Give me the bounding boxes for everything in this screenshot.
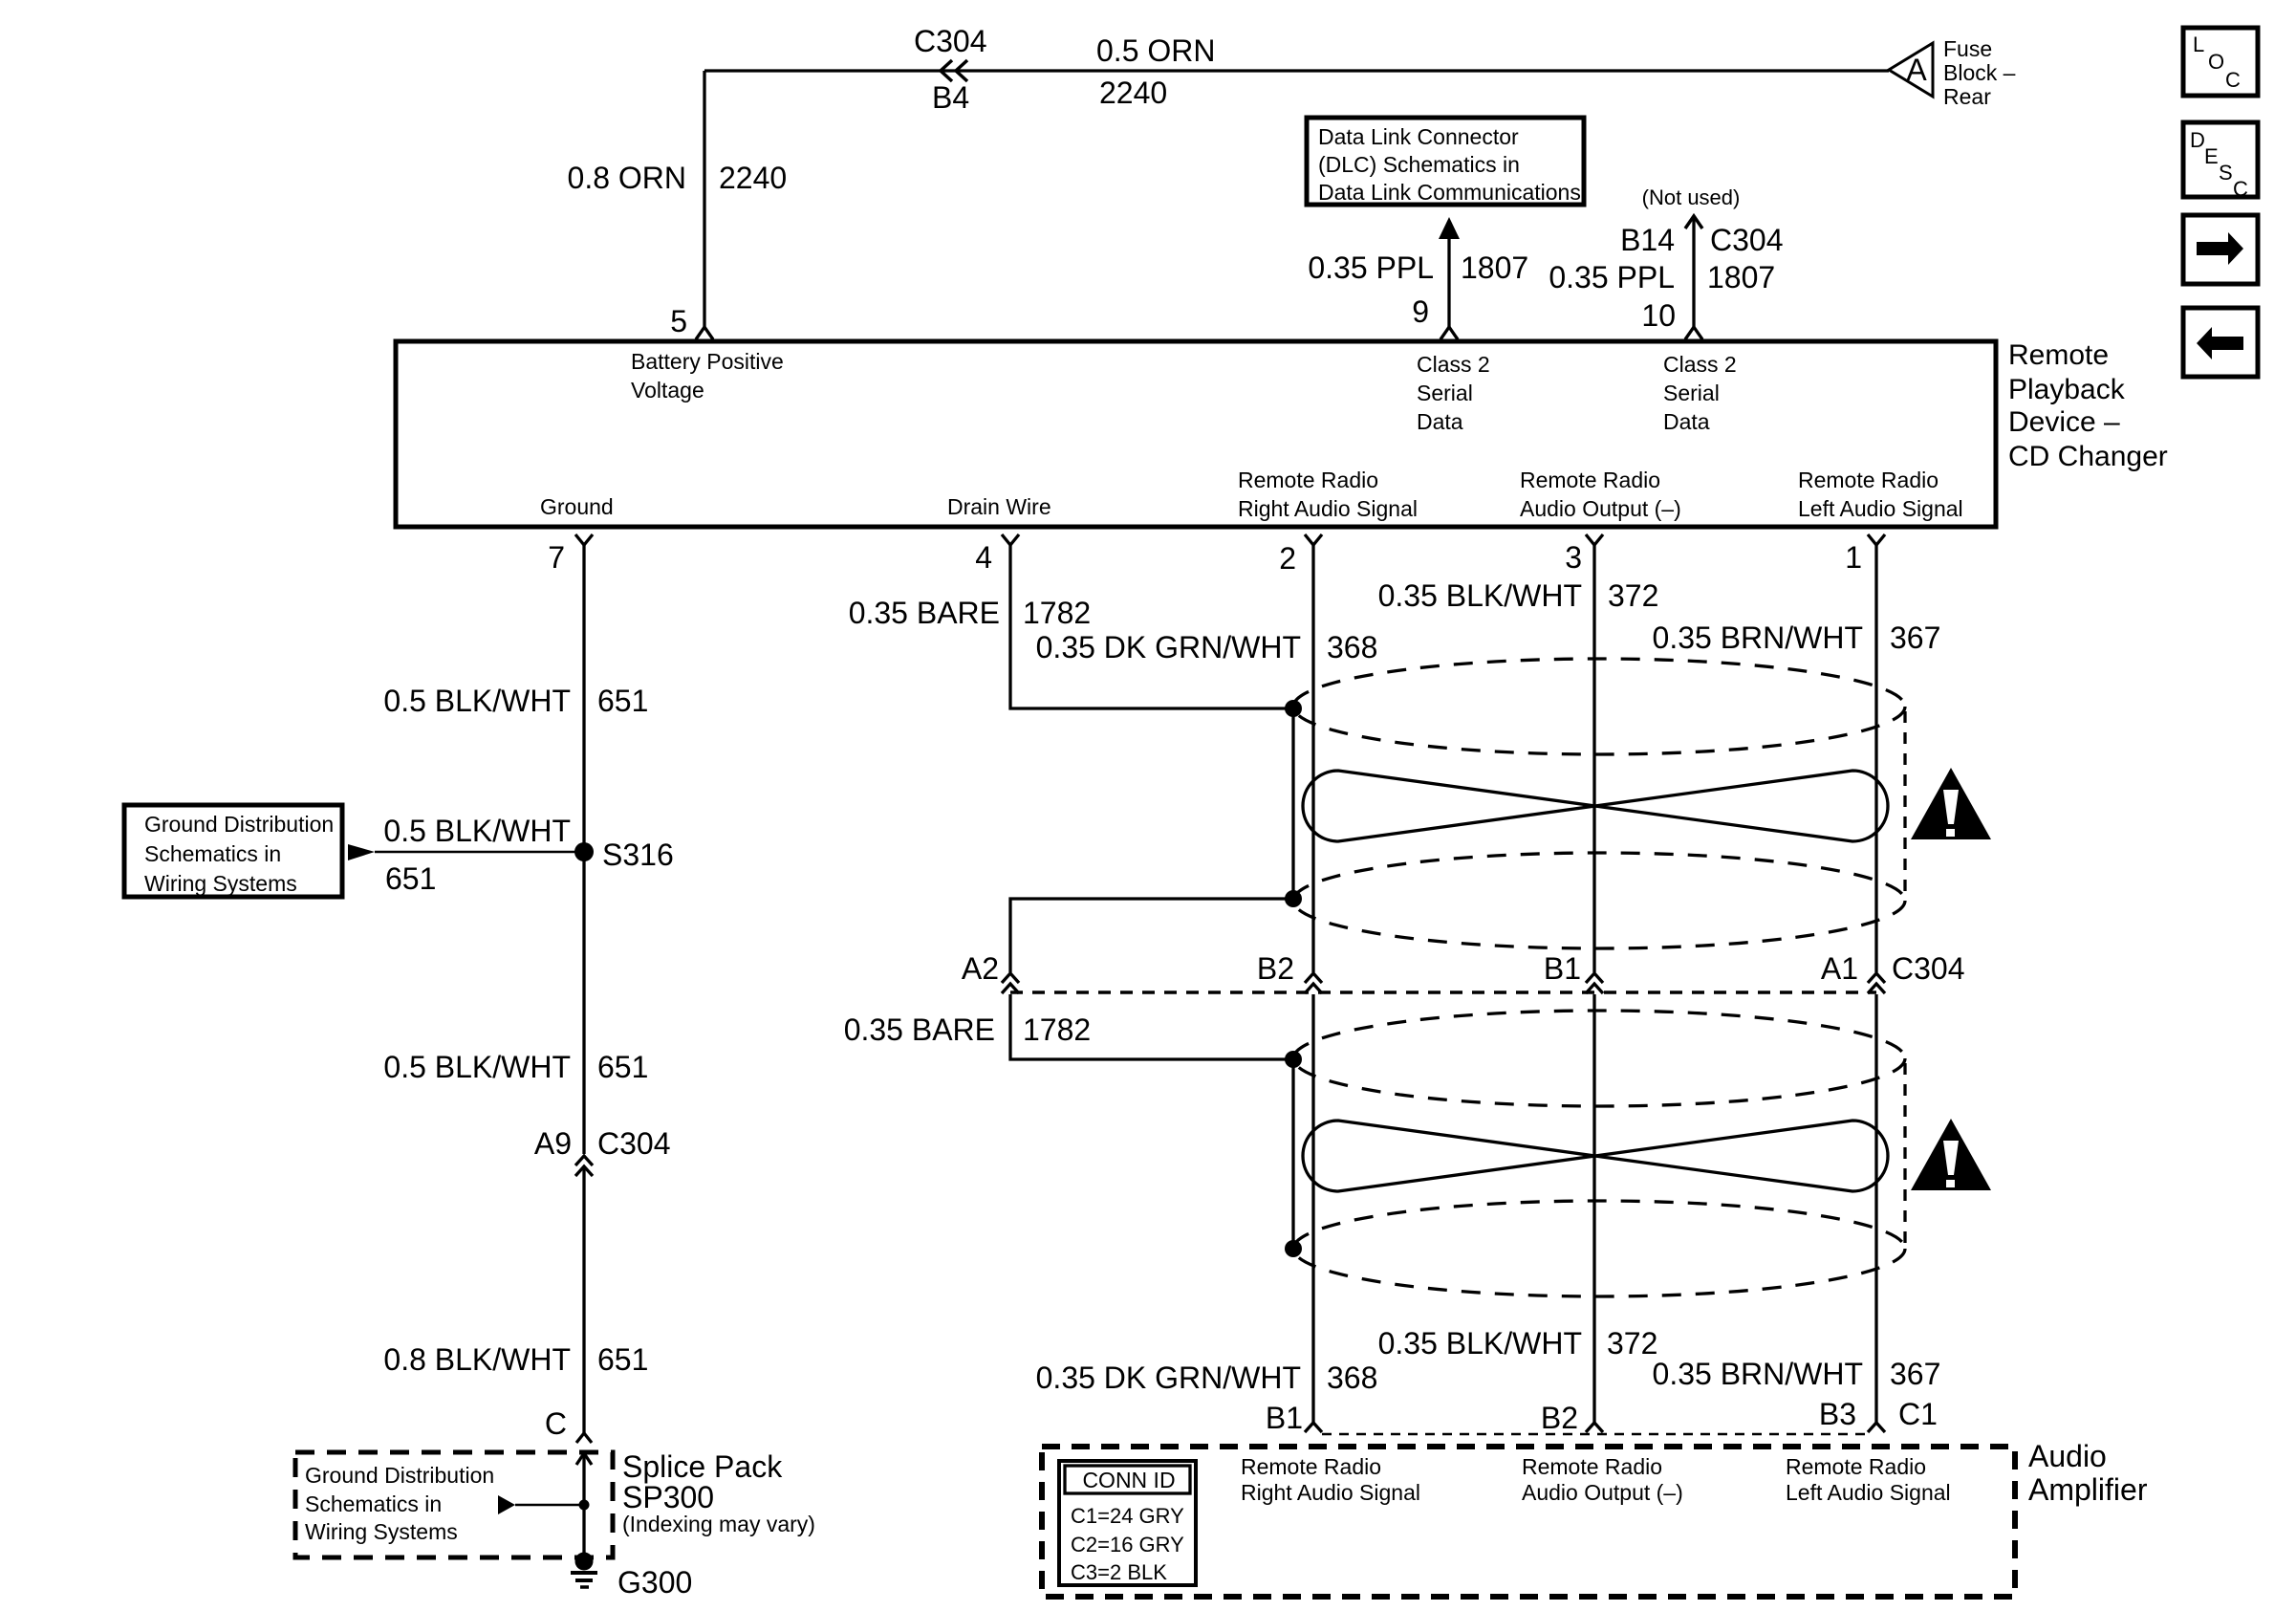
- connector C304 B4 chevrons on top wire: [941, 60, 967, 81]
- audio amplifier dashed box: [1042, 1447, 2015, 1597]
- svg-text:0.35 DK GRN/WHT: 0.35 DK GRN/WHT: [1036, 1361, 1301, 1395]
- svg-text:Battery Positive: Battery Positive: [631, 349, 784, 374]
- twisted pair shield upper: right side: [1903, 711, 1906, 896]
- wire vertical 0.8 ORN: [703, 71, 705, 327]
- amp pins dashed link: [1322, 1433, 1866, 1436]
- svg-text:Ground Distribution: Ground Distribution: [305, 1463, 494, 1488]
- wire pin 3 lower: [1592, 994, 1595, 1423]
- svg-text:0.35 BLK/WHT: 0.35 BLK/WHT: [1378, 1326, 1582, 1361]
- svg-text:B2: B2: [1257, 951, 1294, 986]
- svg-text:A2: A2: [962, 951, 999, 986]
- svg-text:2240: 2240: [719, 161, 787, 195]
- svg-text:0.35 PPL: 0.35 PPL: [1308, 250, 1434, 285]
- svg-text:S316: S316: [602, 838, 674, 872]
- svg-text:0.5 ORN: 0.5 ORN: [1096, 33, 1215, 68]
- svg-text:0.8 ORN: 0.8 ORN: [568, 161, 686, 195]
- connector row dashed line C304: [1010, 991, 1876, 994]
- svg-text:C1=24 GRY: C1=24 GRY: [1071, 1504, 1184, 1528]
- twisted pair shield lower: top ellipse: [1293, 1011, 1905, 1106]
- svg-text:Data: Data: [1417, 409, 1463, 434]
- svg-text:Audio: Audio: [2028, 1439, 2107, 1473]
- svg-text:CONN ID: CONN ID: [1082, 1468, 1175, 1492]
- svg-text:0.5 BLK/WHT: 0.5 BLK/WHT: [383, 1050, 571, 1084]
- wire pin 1 upper: [1874, 545, 1877, 972]
- shield dot lower top: [1285, 1051, 1302, 1068]
- svg-text:Data: Data: [1663, 409, 1710, 434]
- wire top horizontal 0.5 ORN: [704, 69, 1889, 72]
- svg-text:368: 368: [1327, 630, 1377, 664]
- svg-text:Block –: Block –: [1943, 60, 2016, 85]
- svg-text:Drain Wire: Drain Wire: [947, 494, 1051, 519]
- svg-text:O: O: [2208, 50, 2224, 74]
- svg-text:0.35 BRN/WHT: 0.35 BRN/WHT: [1653, 620, 1863, 655]
- shield link upper: [1291, 708, 1294, 899]
- warning triangle upper: [1911, 768, 1991, 839]
- ground wire lower segment: [582, 1166, 585, 1433]
- DLC reference box: [1307, 118, 1584, 205]
- svg-text:0.35 PPL: 0.35 PPL: [1549, 260, 1675, 294]
- svg-text:A1: A1: [1821, 951, 1858, 986]
- twisted pair shield lower: right side: [1903, 1063, 1906, 1244]
- svg-text:372: 372: [1607, 1326, 1657, 1361]
- svg-text:651: 651: [385, 861, 436, 896]
- svg-text:Data Link Connector: Data Link Connector: [1318, 124, 1519, 149]
- svg-text:D: D: [2190, 128, 2205, 152]
- svg-text:651: 651: [597, 1050, 648, 1084]
- svg-text:C: C: [545, 1406, 567, 1441]
- pin 5 connector caret: [696, 327, 713, 339]
- pin 4 fork: [1002, 534, 1019, 545]
- svg-text:2: 2: [1279, 541, 1296, 576]
- svg-text:Remote Radio: Remote Radio: [1241, 1454, 1381, 1479]
- svg-text:651: 651: [597, 684, 648, 718]
- svg-text:Splice Pack: Splice Pack: [622, 1449, 783, 1484]
- svg-text:B3: B3: [1819, 1397, 1856, 1431]
- svg-text:Playback: Playback: [2008, 374, 2126, 405]
- svg-text:C304: C304: [1892, 951, 1965, 986]
- svg-text:SP300: SP300: [622, 1480, 714, 1514]
- svg-text:B1: B1: [1266, 1401, 1303, 1435]
- svg-text:C304: C304: [1710, 223, 1784, 257]
- svg-text:Left Audio Signal: Left Audio Signal: [1798, 496, 1963, 521]
- svg-text:4: 4: [975, 540, 992, 575]
- pin 2 fork: [1305, 534, 1322, 545]
- svg-text:Wiring Systems: Wiring Systems: [144, 871, 297, 896]
- right arrow box: [2183, 215, 2258, 284]
- DESC box: [2183, 122, 2258, 201]
- svg-text:Remote Radio: Remote Radio: [1238, 468, 1378, 492]
- twisted pair shield upper: bottom ellipse: [1293, 853, 1905, 948]
- svg-text:0.35 BARE: 0.35 BARE: [849, 596, 1000, 630]
- svg-text:B2: B2: [1541, 1401, 1578, 1435]
- shield dot lower bottom: [1285, 1240, 1302, 1257]
- svg-text:5: 5: [670, 304, 687, 338]
- svg-text:Data Link Communications: Data Link Communications: [1318, 180, 1581, 205]
- svg-text:(Not used): (Not used): [1642, 185, 1741, 209]
- svg-text:(DLC) Schematics in: (DLC) Schematics in: [1318, 152, 1520, 177]
- svg-text:Amplifier: Amplifier: [2028, 1472, 2148, 1507]
- svg-text:E: E: [2204, 144, 2219, 168]
- pin 1 fork: [1868, 534, 1885, 545]
- svg-text:0.35 BRN/WHT: 0.35 BRN/WHT: [1653, 1357, 1863, 1391]
- CD changer box: [396, 341, 1996, 527]
- svg-text:G300: G300: [617, 1565, 692, 1600]
- pin 7 fork: [575, 534, 593, 545]
- svg-text:368: 368: [1327, 1361, 1377, 1395]
- svg-text:L: L: [2193, 33, 2204, 56]
- svg-text:Remote: Remote: [2008, 339, 2109, 371]
- svg-text:Serial: Serial: [1663, 381, 1720, 405]
- wire pin 2 upper: [1311, 545, 1314, 972]
- svg-text:372: 372: [1608, 578, 1658, 613]
- pin 9 arrow to DLC: [1439, 217, 1460, 339]
- svg-text:Device –: Device –: [2008, 406, 2120, 438]
- splice pack dashed box: [295, 1452, 613, 1557]
- svg-text:Rear: Rear: [1943, 84, 1991, 109]
- pin 10 arrow not used: [1685, 216, 1702, 339]
- svg-text:3: 3: [1565, 540, 1582, 575]
- left arrow box: [2183, 308, 2258, 377]
- svg-text:Serial: Serial: [1417, 381, 1473, 405]
- svg-text:1: 1: [1845, 540, 1862, 575]
- svg-text:Class 2: Class 2: [1663, 352, 1737, 377]
- svg-text:Wiring Systems: Wiring Systems: [305, 1519, 458, 1544]
- svg-text:Remote Radio: Remote Radio: [1520, 468, 1660, 492]
- svg-text:1782: 1782: [1023, 1012, 1091, 1047]
- wire pin 1 lower: [1874, 994, 1877, 1423]
- svg-text:C: C: [2233, 177, 2248, 201]
- svg-text:C3=2 BLK: C3=2 BLK: [1071, 1560, 1167, 1584]
- shield link lower: [1291, 1059, 1294, 1249]
- drain wire below A2: [1010, 994, 1293, 1059]
- splice S316: [574, 842, 594, 861]
- svg-text:B14: B14: [1620, 223, 1675, 257]
- svg-text:0.5 BLK/WHT: 0.5 BLK/WHT: [383, 814, 571, 848]
- pin 3 fork: [1586, 534, 1603, 545]
- ground G300 symbol: [575, 1553, 594, 1571]
- splice pack arrow from text: [498, 1495, 515, 1514]
- svg-text:367: 367: [1890, 1357, 1940, 1391]
- svg-text:367: 367: [1890, 620, 1940, 655]
- twisted pair symbol upper: [1303, 771, 1888, 841]
- svg-text:Voltage: Voltage: [631, 378, 704, 403]
- wire to S316: [375, 851, 584, 854]
- svg-text:Audio Output (–): Audio Output (–): [1520, 496, 1681, 521]
- drain wire continues to A2: [1010, 899, 1293, 972]
- svg-text:1782: 1782: [1023, 596, 1091, 630]
- svg-text:0.35 BARE: 0.35 BARE: [844, 1012, 995, 1047]
- twisted pair symbol lower: [1303, 1121, 1888, 1191]
- twisted pair shield upper: top ellipse: [1293, 659, 1905, 754]
- LOC box: [2183, 28, 2258, 96]
- svg-text:Schematics in: Schematics in: [144, 841, 281, 866]
- svg-text:Fuse: Fuse: [1943, 36, 1992, 61]
- ground distribution box upper: [124, 805, 342, 897]
- svg-text:9: 9: [1412, 294, 1429, 329]
- svg-text:Remote Radio: Remote Radio: [1786, 1454, 1926, 1479]
- fuse block triangle A: [1889, 43, 1933, 97]
- shield dot upper top: [1285, 700, 1302, 717]
- drain wire pin 4 upper: [1010, 545, 1293, 708]
- svg-text:Remote Radio: Remote Radio: [1522, 1454, 1662, 1479]
- svg-text:C304: C304: [914, 24, 987, 58]
- svg-text:0.35 DK GRN/WHT: 0.35 DK GRN/WHT: [1036, 630, 1301, 664]
- svg-text:B1: B1: [1544, 951, 1581, 986]
- svg-text:Left Audio Signal: Left Audio Signal: [1786, 1480, 1951, 1505]
- svg-text:CD Changer: CD Changer: [2008, 441, 2168, 472]
- svg-text:Ground Distribution: Ground Distribution: [144, 812, 334, 837]
- ground wire pin 7 upper segment: [582, 545, 585, 1154]
- svg-text:Class 2: Class 2: [1417, 352, 1490, 377]
- wire pin 2 lower: [1311, 994, 1314, 1423]
- svg-text:(Indexing may vary): (Indexing may vary): [622, 1512, 815, 1536]
- svg-text:C1: C1: [1898, 1397, 1938, 1431]
- svg-text:Ground: Ground: [540, 494, 614, 519]
- svg-text:0.5 BLK/WHT: 0.5 BLK/WHT: [383, 684, 571, 718]
- svg-text:2240: 2240: [1099, 76, 1167, 110]
- twisted pair shield lower: bottom ellipse: [1293, 1201, 1905, 1296]
- svg-text:A: A: [1906, 53, 1927, 87]
- pin C fork: [576, 1433, 592, 1443]
- svg-text:A9: A9: [534, 1126, 572, 1161]
- svg-text:Right Audio Signal: Right Audio Signal: [1241, 1480, 1420, 1505]
- warning triangle lower: [1911, 1119, 1991, 1190]
- svg-text:10: 10: [1641, 298, 1676, 333]
- svg-text:B4: B4: [932, 80, 969, 115]
- splice pack arrow up: [576, 1453, 592, 1465]
- arrow from box to S316: [348, 844, 375, 860]
- svg-text:7: 7: [548, 540, 565, 575]
- svg-text:Remote Radio: Remote Radio: [1798, 468, 1939, 492]
- wire pin 3 upper: [1592, 545, 1595, 972]
- svg-text:0.8 BLK/WHT: 0.8 BLK/WHT: [383, 1342, 571, 1377]
- svg-text:1807: 1807: [1707, 260, 1775, 294]
- svg-text:0.35 BLK/WHT: 0.35 BLK/WHT: [1378, 578, 1582, 613]
- svg-text:651: 651: [597, 1342, 648, 1377]
- svg-text:Right Audio Signal: Right Audio Signal: [1238, 496, 1418, 521]
- svg-text:1807: 1807: [1461, 250, 1528, 285]
- svg-text:C2=16 GRY: C2=16 GRY: [1071, 1533, 1184, 1557]
- svg-text:Schematics in: Schematics in: [305, 1491, 442, 1516]
- CONN ID table: [1059, 1461, 1196, 1585]
- shield dot upper bottom: [1285, 890, 1302, 907]
- svg-text:Audio Output (–): Audio Output (–): [1522, 1480, 1683, 1505]
- svg-text:C: C: [2225, 68, 2241, 92]
- svg-text:C304: C304: [597, 1126, 671, 1161]
- svg-text:S: S: [2219, 161, 2233, 185]
